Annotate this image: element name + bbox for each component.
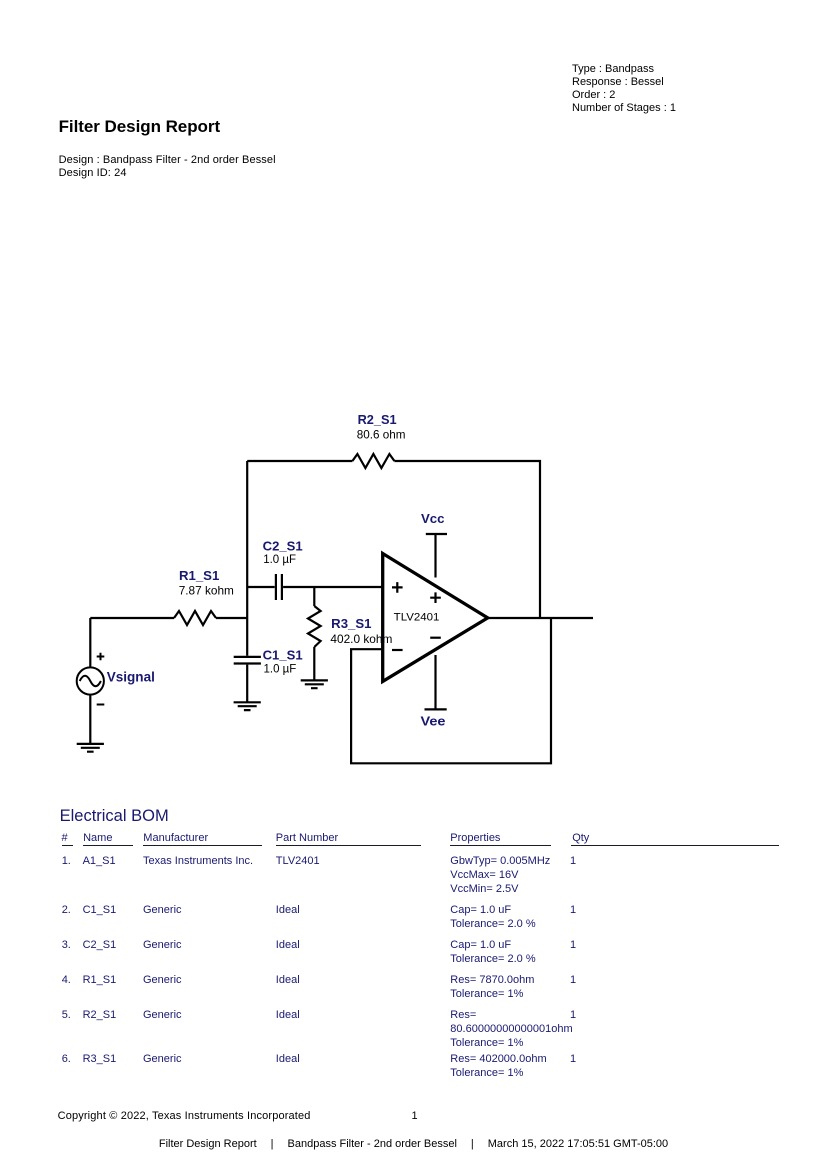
node A vertical wire xyxy=(246,461,248,656)
wire source top to R1 level xyxy=(89,618,91,667)
ground (below Vsignal) xyxy=(77,744,104,752)
op-amp positive supply plus mark xyxy=(430,592,441,603)
minus mark of Vsignal xyxy=(97,704,105,706)
footer page number xyxy=(412,1110,418,1123)
ground (below C1) xyxy=(234,702,261,710)
op-amp inverting input minus mark xyxy=(392,649,403,651)
op-amp negative supply minus mark xyxy=(430,637,441,639)
svg-text:7.87 kohm: 7.87 kohm xyxy=(179,584,234,598)
svg-text:R1_S1: R1_S1 xyxy=(179,568,219,583)
svg-text:R3_S1: R3_S1 xyxy=(331,616,371,631)
Vcc rail xyxy=(426,534,447,578)
voltage source Vsignal xyxy=(77,667,104,694)
op-amp U1 triangle xyxy=(383,554,488,682)
wire C2 node to R3 xyxy=(313,587,315,606)
svg-text:TLV2401: TLV2401 xyxy=(394,611,440,623)
resistor R3_S1 xyxy=(308,606,321,647)
wire source bottom to ground xyxy=(89,695,91,744)
wire node A to C2 xyxy=(247,586,275,588)
svg-text:1.0 µF: 1.0 µF xyxy=(263,552,296,566)
footer copyright xyxy=(58,1110,311,1123)
output wire xyxy=(488,617,593,619)
svg-text:1.0 µF: 1.0 µF xyxy=(264,662,297,676)
Electrical BOM section title xyxy=(60,807,169,825)
footer document info bar xyxy=(0,1138,827,1151)
wire R2 to output node xyxy=(394,461,540,618)
feedback loop wire (output to inverting input) xyxy=(351,618,551,763)
wire R1 to node A xyxy=(216,617,247,619)
wire R3 to ground xyxy=(313,647,315,680)
svg-text:80.6 ohm: 80.6 ohm xyxy=(357,428,406,442)
svg-text:C2_S1: C2_S1 xyxy=(263,538,303,553)
capacitor C1_S1 xyxy=(234,657,261,664)
resistor R2_S1 xyxy=(352,454,394,468)
BOM row 2: C1_S1 xyxy=(62,903,71,917)
design description lines xyxy=(59,154,276,180)
svg-text:C1_S1: C1_S1 xyxy=(263,647,303,662)
resistor R1_S1 xyxy=(174,611,216,625)
capacitor C2_S1 xyxy=(276,574,282,600)
svg-text:Vcc: Vcc xyxy=(421,511,445,526)
report title xyxy=(59,117,220,136)
BOM row 5: R2_S1 xyxy=(62,1008,71,1022)
svg-text:Vee: Vee xyxy=(421,714,446,729)
plus mark of Vsignal xyxy=(97,653,105,661)
ground (below R3) xyxy=(301,680,328,688)
svg-text:R2_S1: R2_S1 xyxy=(358,412,397,427)
BOM row 1: A1_S1 xyxy=(62,854,71,868)
svg-text:Vsignal: Vsignal xyxy=(107,669,155,685)
wire source to R1 xyxy=(90,617,174,619)
BOM header underlines xyxy=(62,845,74,846)
top feedback wire (node A to R2) xyxy=(247,460,352,462)
wire C2 to op-amp noninverting input xyxy=(283,586,383,588)
op-amp noninverting input plus mark xyxy=(392,582,403,593)
top-right filter summary block xyxy=(572,63,676,114)
BOM header row xyxy=(62,832,68,845)
wire C1 to ground xyxy=(246,665,248,703)
Vee rail xyxy=(425,655,447,709)
BOM row 3: C2_S1 xyxy=(62,938,71,952)
BOM row 4: R1_S1 xyxy=(62,973,71,987)
BOM row 6: R3_S1 xyxy=(62,1052,71,1066)
svg-text:402.0 kohm: 402.0 kohm xyxy=(330,632,392,646)
